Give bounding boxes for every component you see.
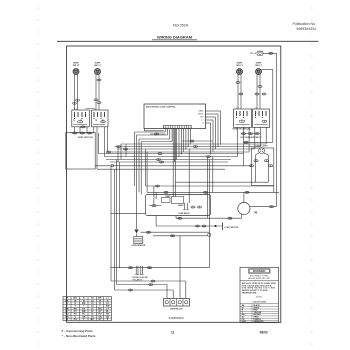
publication number <box>292 22 316 31</box>
indicator light DS2 (right front) <box>94 63 101 75</box>
relay feed wires <box>154 128 189 205</box>
drop wires to relay section <box>135 132 142 195</box>
labels under right switches <box>232 129 262 140</box>
svg-text:OVEN RELAY: OVEN RELAY <box>178 212 190 215</box>
connectors on bundle <box>106 146 163 164</box>
oven sensor RT1 <box>131 135 146 247</box>
svg-text:TERM BLOCK: TERM BLOCK <box>170 309 183 311</box>
svg-text:BROIL: BROIL <box>198 114 203 116</box>
svg-text:WARNING: WARNING <box>253 269 266 273</box>
wire DS4 to right margin <box>261 70 273 143</box>
svg-text:IND LT: IND LT <box>236 65 243 67</box>
svg-text:IND LT: IND LT <box>255 65 262 67</box>
svg-text:# – Fast-moving Parts: # – Fast-moving Parts <box>62 329 94 333</box>
indicator light DS1 (left front) <box>73 63 80 75</box>
wire node to terminal feed <box>153 235 208 299</box>
svg-text:OVEN SENSOR: OVEN SENSOR <box>131 245 146 247</box>
warning box <box>240 267 279 323</box>
wire row to lamp circuit <box>175 181 269 183</box>
connector on light wire <box>97 79 101 81</box>
svg-text:11: 11 <box>171 330 175 334</box>
door lock switch S5 <box>111 266 210 279</box>
oven light connectors <box>249 160 272 167</box>
connector row under right switches <box>241 133 260 135</box>
oven lamp assembly box <box>252 148 274 186</box>
svg-text:IND LT: IND LT <box>94 65 101 67</box>
svg-text:SURF SW (RF)(LR): SURF SW (RF)(LR) <box>232 129 250 131</box>
long left vertical wire B <box>114 169 116 290</box>
svg-text:FEF352A: FEF352A <box>173 24 189 28</box>
svg-text:WIRING DIAGRAM: WIRING DIAGRAM <box>157 34 193 39</box>
surface unit connector row <box>71 132 94 134</box>
surface switch S4 <box>253 107 270 127</box>
surface switch S1 (LF) <box>72 108 90 127</box>
svg-text:* – Non-Illustrated Parts: * – Non-Illustrated Parts <box>62 334 96 338</box>
wire row to terminal block 1 <box>111 278 186 298</box>
indicator light DS4 <box>255 63 262 75</box>
svg-text:5995394334: 5995394334 <box>297 27 317 31</box>
svg-text:BAKE: BAKE <box>165 195 171 198</box>
svg-text:*M: *M <box>254 211 257 215</box>
connector below U1 right <box>182 140 213 148</box>
svg-text:BAKE: BAKE <box>199 110 205 113</box>
U1 ribbon wires <box>135 128 191 162</box>
hot surface wire row <box>244 141 273 143</box>
svg-text:TO L2: TO L2 <box>250 53 257 55</box>
U1 ribbon connector strip <box>164 125 192 128</box>
bundle crossing verticals <box>118 144 126 162</box>
wire row B <box>146 149 274 192</box>
oven relay cluster K1 <box>146 195 211 216</box>
surface switch S3 <box>234 107 252 127</box>
wires S1/S2 to surface unit row <box>75 127 88 133</box>
motor top wire <box>243 192 245 202</box>
oven light DS5 <box>255 146 268 154</box>
terminal block TB1 <box>164 299 190 311</box>
svg-text:COLOR CODE: COLOR CODE <box>252 302 266 304</box>
U1 right pin wires <box>206 111 221 155</box>
electronic oven control U1 <box>144 104 206 129</box>
connectors on light wires <box>73 99 102 104</box>
svg-text:OVEN LIGHT: OVEN LIGHT <box>255 146 268 148</box>
jumper between S1 and S2 <box>86 107 95 109</box>
wires under right switches <box>238 127 267 165</box>
svg-text:IND LT: IND LT <box>73 65 80 67</box>
long left vertical wire D <box>119 162 121 268</box>
svg-text:GY: GY <box>98 319 102 321</box>
svg-text:SURF UNIT (LF): SURF UNIT (LF) <box>78 137 93 139</box>
connector under S1 <box>81 126 86 128</box>
svg-text:TEMPERATURE.: TEMPERATURE. <box>242 292 257 295</box>
wire row to relay left <box>111 212 146 214</box>
wire from connector row down <box>97 133 99 154</box>
U1 left pin wire <box>144 128 163 130</box>
run capacitor C1 row <box>156 216 239 231</box>
surface switch S2 (RF) <box>92 108 109 127</box>
oven light wires <box>256 153 269 182</box>
heading WIRING DIAGRAM <box>152 34 197 39</box>
node junction small circle <box>111 164 114 167</box>
long left vertical wire A <box>110 166 112 281</box>
indicator light DS3 <box>236 63 243 75</box>
convection motor M1 <box>238 202 257 214</box>
header rule <box>57 40 319 42</box>
wire row to terminal block 3 <box>117 284 168 299</box>
svg-text:ELECTRONIC OVEN CONTROL: ELECTRONIC OVEN CONTROL <box>146 107 176 109</box>
svg-text:TO LATCH: TO LATCH <box>133 278 143 281</box>
svg-text:L1: L1 <box>202 120 204 122</box>
motor right wire <box>250 206 277 208</box>
wire S2 right pin to bundle <box>104 127 107 157</box>
surface unit box <box>66 133 95 170</box>
svg-text:-NOTE-: -NOTE- <box>256 297 263 299</box>
connector on bundle right <box>206 156 210 158</box>
wire surface box to vertical A <box>94 127 244 166</box>
svg-text:BEFORE SERVICING UNIT: BEFORE SERVICING UNIT <box>248 278 271 280</box>
wire row C motor feed <box>147 152 279 194</box>
central wiring bundle horizontals <box>98 144 266 162</box>
L2 feed fuse F1 <box>250 51 263 55</box>
svg-text:BK: BK <box>91 319 95 321</box>
long left vertical wire C <box>116 160 118 285</box>
svg-text:BROIL: BROIL <box>178 205 184 207</box>
connectors on right light wires <box>236 82 266 95</box>
wire S2 pin down-long <box>97 127 225 169</box>
svg-text:Publication No.: Publication No. <box>292 22 316 26</box>
wires lights to left switches <box>75 74 100 110</box>
motor bottom wire <box>176 214 242 219</box>
connector below U1 left <box>150 133 166 135</box>
svg-text:318255300: 318255300 <box>168 316 183 320</box>
wires lights to right switches <box>238 74 260 109</box>
vertical wires right of relay box <box>208 157 213 268</box>
junction node N1 <box>208 233 211 236</box>
right margin vertical wire L2 <box>276 53 278 206</box>
stub to oven lamp box <box>244 165 252 167</box>
sensor wire row <box>141 231 210 233</box>
svg-text:PU: PU <box>74 319 77 321</box>
svg-text:08/03: 08/03 <box>260 330 268 334</box>
switch internal marks <box>74 120 104 121</box>
wire L2 to right margin <box>263 52 277 54</box>
wire row to terminal block 2 <box>115 289 174 299</box>
diagram border frame <box>67 46 281 322</box>
wiring color code table <box>63 297 112 321</box>
svg-text:CONV MOTOR: CONV MOTOR <box>225 227 239 229</box>
